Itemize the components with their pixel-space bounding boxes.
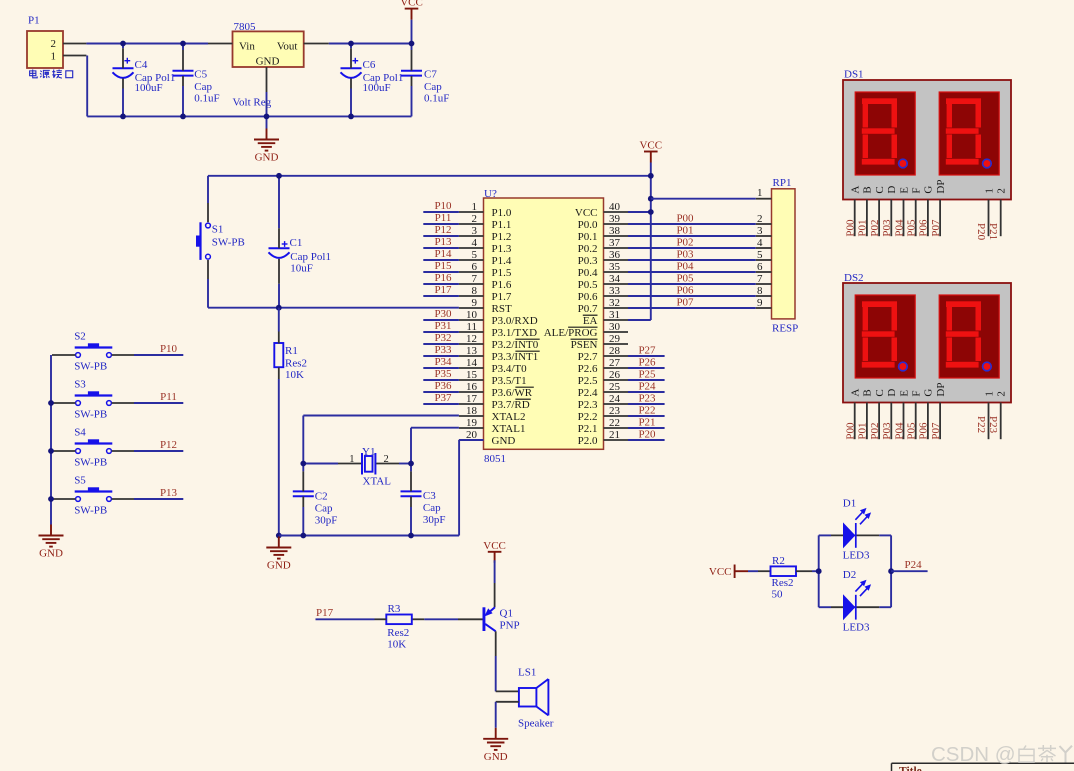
svg-text:16: 16 bbox=[466, 381, 478, 393]
junction C3 bottom bbox=[408, 533, 414, 539]
svg-text:23: 23 bbox=[609, 405, 621, 417]
svg-text:P11: P11 bbox=[160, 391, 177, 403]
wire button left pin bbox=[52, 354, 75, 356]
push button S3 bbox=[75, 391, 113, 405]
pin 40 (VCC) of U? bbox=[575, 201, 628, 219]
label S1 bbox=[212, 223, 245, 248]
svg-text:28: 28 bbox=[609, 345, 621, 357]
svg-text:C4: C4 bbox=[135, 59, 148, 71]
svg-text:Title: Title bbox=[899, 766, 922, 771]
svg-text:Speaker: Speaker bbox=[518, 717, 554, 729]
svg-text:F: F bbox=[911, 390, 923, 396]
wire pin40 to VCC bbox=[628, 211, 651, 213]
junction C2 bottom bbox=[300, 533, 306, 539]
svg-text:C5: C5 bbox=[194, 69, 207, 81]
junction C7 top bbox=[409, 41, 415, 47]
svg-text:D2: D2 bbox=[843, 569, 856, 581]
label S4 bbox=[74, 427, 107, 469]
svg-text:7: 7 bbox=[472, 273, 478, 285]
svg-text:P21: P21 bbox=[987, 223, 999, 240]
svg-text:P1.1: P1.1 bbox=[492, 219, 512, 231]
watermark CSDN bbox=[931, 743, 1072, 766]
wire/pin R1 bottom bbox=[278, 367, 280, 536]
net label P11 bbox=[435, 212, 452, 224]
display DS1 designator bbox=[844, 69, 864, 81]
svg-text:21: 21 bbox=[609, 429, 620, 441]
svg-text:SW-PB: SW-PB bbox=[74, 360, 107, 372]
wire/pin C4 top bbox=[122, 44, 124, 69]
label C5 values bbox=[194, 69, 219, 105]
label S2 bbox=[74, 331, 107, 373]
wire crystal right bbox=[375, 463, 411, 465]
net label P06 bbox=[676, 285, 694, 297]
svg-text:4: 4 bbox=[757, 237, 763, 249]
wire P15 net bbox=[423, 271, 459, 273]
svg-text:P15: P15 bbox=[434, 260, 452, 272]
svg-text:5: 5 bbox=[472, 249, 478, 261]
pin GND stub of 7805 bbox=[266, 67, 268, 116]
svg-text:P23: P23 bbox=[638, 392, 656, 404]
label R1 values bbox=[285, 345, 307, 381]
svg-text:27: 27 bbox=[609, 357, 621, 369]
wire P13 net bbox=[423, 247, 459, 249]
microcontroller U? 8051 bbox=[484, 188, 604, 465]
wire P37 net bbox=[423, 403, 459, 405]
svg-text:P07: P07 bbox=[930, 219, 942, 237]
svg-text:P31: P31 bbox=[434, 320, 451, 332]
svg-text:7: 7 bbox=[757, 273, 763, 285]
7-segment display DS2 bbox=[843, 283, 1011, 403]
svg-text:G: G bbox=[923, 186, 935, 194]
svg-text:P05: P05 bbox=[906, 219, 918, 237]
net label P10 bbox=[160, 343, 178, 355]
wire P33 net bbox=[423, 355, 459, 357]
junction LED left node bbox=[816, 568, 822, 574]
svg-text:P02: P02 bbox=[869, 422, 881, 439]
wire XTAL2 horizontal bbox=[303, 415, 459, 417]
pin A of DS1 bbox=[845, 186, 862, 237]
svg-text:B: B bbox=[862, 389, 874, 396]
svg-text:11: 11 bbox=[466, 321, 477, 333]
net label P12 bbox=[434, 224, 451, 236]
wire collector to speaker bbox=[496, 690, 519, 692]
svg-text:1: 1 bbox=[51, 51, 57, 63]
svg-text:P16: P16 bbox=[434, 272, 452, 284]
wire P11 net bbox=[423, 223, 459, 225]
svg-text:26: 26 bbox=[609, 369, 621, 381]
wire P36 net bbox=[423, 391, 459, 393]
net label P24 bbox=[638, 380, 656, 392]
svg-text:50: 50 bbox=[772, 589, 784, 601]
svg-text:P34: P34 bbox=[434, 356, 452, 368]
svg-text:14: 14 bbox=[466, 357, 478, 369]
wire button right pin bbox=[112, 402, 184, 404]
pin 32 (P0.7) of U? bbox=[578, 297, 628, 315]
LED D2 bbox=[819, 569, 891, 633]
pin 12 (P3.2/INT0) of U? bbox=[459, 333, 540, 351]
wire P25 net bbox=[628, 379, 665, 381]
svg-text:P2.3: P2.3 bbox=[578, 399, 598, 411]
svg-text:6: 6 bbox=[757, 261, 763, 273]
svg-text:15: 15 bbox=[466, 369, 478, 381]
capacitor C7 bbox=[401, 71, 422, 76]
wire collector bbox=[495, 631, 497, 691]
pin B of DS1 bbox=[857, 186, 874, 236]
voltage regulator 7805 bbox=[233, 21, 304, 109]
svg-text:P24: P24 bbox=[905, 559, 923, 571]
svg-text:P2.2: P2.2 bbox=[578, 411, 598, 423]
speaker LS1 bbox=[518, 667, 554, 730]
svg-text:39: 39 bbox=[609, 213, 621, 225]
svg-text:P12: P12 bbox=[434, 224, 451, 236]
pin 1 (P1.0) of U? bbox=[459, 201, 512, 219]
svg-text:Cap: Cap bbox=[423, 502, 441, 514]
pin 36 (P0.3) of U? bbox=[578, 249, 628, 267]
svg-text:RST: RST bbox=[492, 303, 512, 315]
wire P21 net bbox=[628, 427, 665, 429]
svg-text:PNP: PNP bbox=[500, 619, 520, 631]
svg-text:PSEN: PSEN bbox=[571, 339, 598, 351]
svg-text:P3.7/RD: P3.7/RD bbox=[492, 399, 530, 411]
svg-text:37: 37 bbox=[609, 237, 621, 249]
svg-text:P3.1/TXD: P3.1/TXD bbox=[492, 327, 538, 339]
svg-text:Vout: Vout bbox=[277, 41, 298, 53]
svg-text:P03: P03 bbox=[881, 422, 893, 440]
svg-text:2: 2 bbox=[51, 38, 57, 50]
pin 31 (EA) of U? bbox=[583, 309, 628, 327]
net label P01 bbox=[676, 225, 693, 237]
svg-text:Res2: Res2 bbox=[772, 577, 794, 589]
wire/pin C2 top bbox=[302, 464, 304, 492]
svg-text:P2.1: P2.1 bbox=[578, 423, 598, 435]
net label P16 bbox=[434, 272, 452, 284]
wire P07 net bbox=[628, 307, 756, 309]
svg-text:A: A bbox=[850, 186, 862, 194]
svg-text:P01: P01 bbox=[676, 225, 693, 237]
wire VCC to R2 bbox=[748, 570, 771, 572]
push button S5 bbox=[75, 487, 113, 501]
ground GND (reset) bbox=[266, 537, 291, 572]
svg-text:LED3: LED3 bbox=[843, 621, 870, 633]
pin 2 (P1.1) of U? bbox=[459, 213, 511, 231]
wire RST net bbox=[208, 307, 459, 309]
pin F of DS1 bbox=[906, 187, 923, 236]
pin 13 (P3.3/INT1) of U? bbox=[459, 345, 540, 363]
resistor pack RP1 bbox=[772, 177, 799, 334]
power VCC (speaker driver) bbox=[483, 540, 506, 563]
svg-text:8: 8 bbox=[757, 285, 763, 297]
svg-text:P07: P07 bbox=[676, 297, 694, 309]
svg-text:GND: GND bbox=[256, 56, 280, 68]
junction crystal left bbox=[300, 461, 306, 467]
wire RP1 pin1 to VCC bbox=[651, 198, 756, 200]
svg-text:P20: P20 bbox=[638, 428, 656, 440]
pin DP of DS1 bbox=[930, 180, 947, 237]
svg-text:Cap: Cap bbox=[194, 81, 212, 93]
pin D of DS1 bbox=[881, 186, 898, 237]
svg-text:P1: P1 bbox=[28, 15, 40, 27]
wire speaker to ground bbox=[496, 702, 519, 728]
pin 2 of DS1 bbox=[987, 188, 1007, 240]
svg-text:P22: P22 bbox=[975, 416, 987, 433]
wire/pin R1 top bbox=[278, 308, 280, 344]
net label P14 bbox=[434, 248, 452, 260]
wire/pin C1 top bbox=[278, 176, 280, 249]
pin 38 (P0.1) of U? bbox=[578, 225, 628, 243]
svg-text:Cap: Cap bbox=[315, 503, 333, 515]
wire P23 net bbox=[628, 403, 665, 405]
svg-text:DS1: DS1 bbox=[844, 69, 864, 81]
pin 39 (P0.0) of U? bbox=[578, 213, 628, 231]
svg-text:9: 9 bbox=[757, 297, 763, 309]
svg-text:0.1uF: 0.1uF bbox=[194, 92, 219, 104]
svg-text:6: 6 bbox=[472, 261, 478, 273]
svg-text:P3.3/INT1: P3.3/INT1 bbox=[492, 351, 539, 363]
svg-text:P2.0: P2.0 bbox=[578, 435, 598, 447]
wire P31 net bbox=[423, 331, 459, 333]
net label P32 bbox=[434, 332, 451, 344]
svg-text:40: 40 bbox=[609, 201, 621, 213]
svg-text:2: 2 bbox=[472, 213, 478, 225]
wire button left pin bbox=[52, 402, 75, 404]
svg-text:29: 29 bbox=[609, 333, 621, 345]
svg-text:P06: P06 bbox=[918, 219, 930, 237]
pin 1 stub of P1 bbox=[63, 55, 86, 57]
pin 37 (P0.2) of U? bbox=[578, 237, 628, 255]
net label P24 bbox=[905, 559, 923, 571]
svg-text:VCC: VCC bbox=[483, 540, 506, 552]
wire LED loop left bbox=[818, 535, 820, 607]
junction C6 top bbox=[348, 41, 354, 47]
svg-text:C2: C2 bbox=[315, 490, 328, 502]
wire EA to VCC bbox=[628, 319, 651, 321]
crystal Y1 bbox=[349, 446, 391, 488]
resistor R3 bbox=[386, 615, 412, 625]
svg-text:32: 32 bbox=[609, 297, 620, 309]
pin 25 (P2.4) of U? bbox=[578, 381, 628, 399]
svg-text:8051: 8051 bbox=[484, 453, 506, 465]
svg-text:P10: P10 bbox=[434, 200, 452, 212]
wire button ground rail bbox=[50, 355, 52, 525]
svg-text:D: D bbox=[886, 389, 898, 397]
net label P02 bbox=[676, 237, 693, 249]
wire/pin C5 bottom bbox=[182, 76, 184, 116]
pin G of DS1 bbox=[918, 186, 935, 237]
pin E of DS2 bbox=[893, 390, 910, 440]
svg-text:P0.0: P0.0 bbox=[578, 219, 598, 231]
svg-text:10K: 10K bbox=[387, 639, 406, 651]
label S5 bbox=[74, 475, 107, 517]
svg-text:2: 2 bbox=[996, 391, 1008, 397]
svg-text:E: E bbox=[898, 187, 910, 194]
svg-text:8: 8 bbox=[472, 285, 478, 297]
ground GND (speaker) bbox=[483, 728, 508, 763]
wire P1 pin1 down bbox=[86, 56, 88, 117]
svg-text:DP: DP bbox=[935, 383, 947, 397]
wire/pin C6 top bbox=[350, 44, 352, 69]
svg-text:R3: R3 bbox=[388, 603, 401, 615]
wire P10 net bbox=[423, 211, 459, 213]
svg-text:Y1: Y1 bbox=[362, 446, 375, 458]
pin Vin stub of 7805 bbox=[208, 43, 233, 45]
wire LED output bbox=[891, 570, 928, 572]
display DS2 designator bbox=[844, 272, 864, 284]
title block bbox=[892, 763, 1074, 771]
svg-text:3: 3 bbox=[757, 225, 763, 237]
pin 2 stub of P1 bbox=[63, 43, 86, 45]
svg-text:P3.2/INT0: P3.2/INT0 bbox=[492, 339, 539, 351]
pin 7 of RP1 bbox=[756, 273, 772, 285]
pin C of DS1 bbox=[869, 186, 886, 236]
net label P25 bbox=[638, 368, 656, 380]
net label P13 bbox=[160, 487, 178, 499]
junction C6 bottom bbox=[348, 114, 354, 120]
net label P04 bbox=[676, 261, 694, 273]
ground GND (buttons) bbox=[39, 525, 64, 560]
pin 2 of RP1 bbox=[756, 213, 772, 225]
wire GND pin horizontal bbox=[459, 439, 484, 441]
svg-text:DP: DP bbox=[935, 180, 947, 194]
svg-text:F: F bbox=[911, 187, 923, 193]
junction S3 rail bbox=[48, 400, 54, 406]
net label P00 bbox=[676, 213, 694, 225]
svg-text:Res2: Res2 bbox=[387, 627, 409, 639]
wire P24 net bbox=[628, 391, 665, 393]
svg-text:P1.0: P1.0 bbox=[492, 207, 512, 219]
svg-text:12: 12 bbox=[466, 333, 477, 345]
label R3 values bbox=[387, 603, 409, 651]
svg-text:R1: R1 bbox=[285, 345, 298, 357]
junction C1 bottom / RST bbox=[276, 305, 282, 311]
wire/pin C3 top bbox=[410, 464, 412, 492]
svg-text:Cap: Cap bbox=[424, 81, 442, 93]
junction S5 rail bbox=[48, 496, 54, 502]
wire crystal ground rail bbox=[279, 535, 459, 537]
label C3 values bbox=[423, 490, 446, 526]
svg-text:20: 20 bbox=[466, 429, 478, 441]
LED D1 bbox=[819, 498, 891, 562]
svg-text:D: D bbox=[886, 186, 898, 194]
pin 3 (P1.2) of U? bbox=[459, 225, 511, 243]
svg-text:P06: P06 bbox=[918, 422, 930, 440]
svg-text:C: C bbox=[874, 186, 886, 193]
svg-text:P32: P32 bbox=[434, 332, 451, 344]
wire P22 net bbox=[628, 415, 665, 417]
svg-text:P07: P07 bbox=[930, 422, 942, 440]
pin G of DS2 bbox=[918, 389, 935, 440]
svg-text:G: G bbox=[923, 389, 935, 397]
svg-text:30: 30 bbox=[609, 321, 621, 333]
push button S2 bbox=[75, 343, 113, 357]
pin 34 (P0.5) of U? bbox=[578, 273, 628, 291]
svg-text:P1.4: P1.4 bbox=[492, 255, 512, 267]
net label P35 bbox=[434, 368, 452, 380]
svg-text:1: 1 bbox=[757, 187, 763, 199]
svg-text:9: 9 bbox=[472, 297, 478, 309]
wire P32 net bbox=[423, 343, 459, 345]
pin 2 of DS2 bbox=[987, 391, 1007, 439]
svg-text:S5: S5 bbox=[74, 475, 86, 487]
pin 10 (P3.0/RXD) of U? bbox=[459, 309, 538, 327]
svg-text:19: 19 bbox=[466, 417, 478, 429]
svg-text:LS1: LS1 bbox=[518, 667, 536, 679]
wire power ground rail bbox=[87, 115, 411, 117]
svg-text:A: A bbox=[850, 389, 862, 397]
svg-text:P01: P01 bbox=[857, 422, 869, 439]
svg-text:S3: S3 bbox=[74, 379, 86, 391]
wire P20 net bbox=[628, 439, 665, 441]
svg-text:P0.7: P0.7 bbox=[578, 303, 598, 315]
junction S4 rail bbox=[48, 448, 54, 454]
wire/pin C7 top bbox=[411, 44, 413, 71]
svg-text:4: 4 bbox=[472, 237, 478, 249]
wire P34 net bbox=[423, 367, 459, 369]
pin 9 (RST) of U? bbox=[459, 297, 512, 315]
svg-text:P1.6: P1.6 bbox=[492, 279, 512, 291]
power VCC (LED) bbox=[709, 565, 748, 579]
net label P30 bbox=[434, 308, 452, 320]
wire regulator ground drop bbox=[266, 116, 268, 128]
net label P34 bbox=[434, 356, 452, 368]
svg-text:P0.4: P0.4 bbox=[578, 267, 598, 279]
svg-text:XTAL: XTAL bbox=[363, 476, 392, 488]
svg-text:P02: P02 bbox=[676, 237, 693, 249]
label C6 values bbox=[363, 59, 404, 94]
svg-text:2: 2 bbox=[384, 454, 389, 465]
svg-text:P22: P22 bbox=[638, 404, 655, 416]
svg-text:1: 1 bbox=[983, 188, 995, 194]
pin 19 (XTAL1) of U? bbox=[459, 417, 526, 435]
wire button left pin bbox=[52, 498, 75, 500]
label R2 values bbox=[772, 555, 794, 601]
pin 18 (XTAL2) of U? bbox=[459, 405, 526, 423]
svg-text:P00: P00 bbox=[676, 213, 694, 225]
svg-text:P10: P10 bbox=[160, 343, 178, 355]
svg-text:C: C bbox=[874, 389, 886, 396]
svg-text:35: 35 bbox=[609, 261, 621, 273]
svg-text:LED3: LED3 bbox=[843, 550, 870, 562]
svg-text:22: 22 bbox=[609, 417, 620, 429]
capacitor C1 bbox=[269, 241, 290, 258]
capacitor C4 bbox=[113, 58, 134, 78]
junction C1 top bbox=[276, 173, 282, 179]
svg-text:P0.2: P0.2 bbox=[578, 243, 598, 255]
wire P01 net bbox=[628, 235, 756, 237]
svg-text:RESP: RESP bbox=[772, 323, 798, 335]
junction C5 top bbox=[180, 41, 186, 47]
svg-text:1: 1 bbox=[349, 454, 354, 465]
wire P00 net bbox=[628, 223, 756, 225]
pin 1 of DS1 bbox=[975, 188, 995, 241]
svg-text:P04: P04 bbox=[676, 261, 694, 273]
svg-text:XTAL1: XTAL1 bbox=[492, 423, 526, 435]
svg-text:P03: P03 bbox=[676, 249, 694, 261]
pin 4 (P1.3) of U? bbox=[459, 237, 512, 255]
pin 16 (P3.6/WR) of U? bbox=[459, 381, 534, 399]
pin DP of DS2 bbox=[930, 383, 947, 440]
junction crystal right bbox=[408, 461, 414, 467]
svg-text:Vin: Vin bbox=[239, 41, 255, 53]
svg-text:100uF: 100uF bbox=[363, 82, 391, 94]
svg-text:25: 25 bbox=[609, 381, 621, 393]
svg-text:3: 3 bbox=[472, 225, 478, 237]
junction LED right node bbox=[888, 568, 894, 574]
svg-text:GND: GND bbox=[492, 435, 516, 447]
svg-text:P30: P30 bbox=[434, 308, 452, 320]
wire P26 net bbox=[628, 367, 665, 369]
net label P17 bbox=[316, 607, 334, 619]
svg-text:Cap Pol1: Cap Pol1 bbox=[290, 251, 331, 263]
